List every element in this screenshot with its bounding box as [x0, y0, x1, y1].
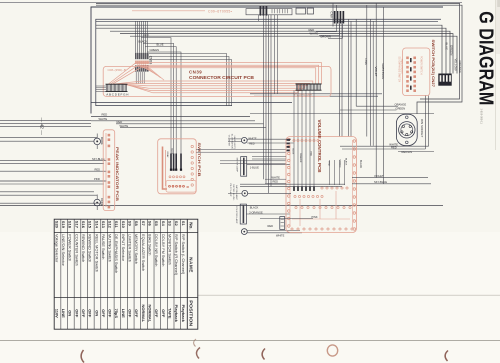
wires inside volume pcb vertical	[329, 160, 331, 185]
svg-text:S7: S7	[141, 221, 146, 227]
jack J3 (circle)	[241, 229, 247, 235]
wire bundle down (pair A)	[339, 19, 341, 136]
svg-text:INPUT Selector: INPUT Selector	[121, 234, 126, 262]
wires CN8 down with labels	[336, 24, 338, 32]
svg-text:2-ORANGE: 2-ORANGE	[249, 211, 263, 215]
wires pcb(2/2) down	[428, 96, 430, 147]
svg-text:DOLBY NR Switch: DOLBY NR Switch	[154, 234, 159, 266]
svg-text:S16: S16	[81, 221, 86, 229]
svg-text:REWIND Switch: REWIND Switch	[88, 234, 93, 262]
inner border second line	[96, 20, 438, 22]
svg-text:REWIND Switch: REWIND Switch	[81, 234, 86, 262]
svg-text:WHITE: WHITE	[120, 124, 129, 128]
wires exiting left to peak indicator pcb	[0, 137, 97, 139]
svg-text:PINK: PINK	[312, 215, 318, 219]
svg-text:RED: RED	[102, 113, 108, 117]
svg-text:S1: S1	[181, 221, 186, 227]
svg-text:METER ILLUMI-: METER ILLUMI-	[232, 185, 234, 201]
svg-text:REEL MOTOR Switch: REEL MOTOR Switch	[94, 234, 99, 272]
top border rule	[0, 2, 462, 4]
svg-text:LINE/DIN Selector: LINE/DIN Selector	[61, 234, 66, 266]
wire bundle down (pair B)	[348, 19, 350, 136]
svg-text:NORMAL: NORMAL	[148, 305, 153, 323]
wires exiting page left (top group)	[0, 119, 91, 121]
svg-text:RED: RED	[391, 146, 397, 150]
peak indicator pads	[108, 134, 111, 137]
wires right side going to DIN socket	[420, 30, 460, 99]
svg-text:ORANGE: ORANGE	[395, 102, 407, 106]
svg-text:Voltage Selector: Voltage Selector	[54, 234, 59, 263]
svg-text:▮▮: ▮▮	[187, 185, 189, 188]
wires across to DIN area	[252, 156, 286, 158]
wire down mid	[366, 5, 368, 136]
wire VIOLET down	[375, 3, 377, 177]
svg-text:COUNTER LAMP: COUNTER LAMP	[235, 206, 238, 224]
wires RED/WHITE under border corner	[91, 116, 250, 118]
volume pcb pads middle row	[294, 195, 296, 197]
svg-text:WHITE: WHITE	[272, 175, 281, 179]
bottom border rule	[0, 339, 500, 341]
table: switch position table frame	[54, 219, 198, 329]
svg-text:WHITE: WHITE	[99, 117, 108, 121]
diode D2	[94, 199, 101, 206]
svg-text:RED: RED	[268, 224, 274, 228]
wire down from top box B	[277, 15, 279, 94]
table row S15: REWIND Switch = OFF	[93, 219, 95, 329]
svg-text:ILLUMINATION: ILLUMINATION	[230, 134, 233, 150]
DIN socket	[396, 114, 417, 145]
small connector bottom-left of volume pcb	[280, 217, 285, 230]
svg-text:PINK: PINK	[327, 161, 329, 167]
svg-text:DE-EMPHASIS SWITCH: DE-EMPHASIS SWITCH	[398, 57, 401, 83]
svg-text:WHITE: WHITE	[248, 137, 257, 141]
border segment right-bottom 2	[254, 95, 378, 97]
svg-text:RED: RED	[273, 180, 279, 184]
connector CN38 pin row (upper)	[135, 53, 136, 59]
wire jack J2 to volume pcb	[248, 192, 291, 194]
svg-text:VIOLET: VIOLET	[374, 174, 384, 178]
svg-text:RED: RED	[95, 167, 101, 171]
wire RED to DIN	[342, 148, 425, 150]
diode D1	[94, 138, 101, 145]
svg-text:EQUALAIZER Switch: EQUALAIZER Switch	[141, 234, 146, 271]
wire PINK bottom	[260, 218, 313, 220]
svg-text:OFF: OFF	[154, 309, 159, 318]
connector CN8	[334, 11, 336, 24]
svg-text:BLACK: BLACK	[139, 39, 148, 43]
svg-text:CN39: CN39	[189, 69, 202, 74]
svg-text:GRAY: GRAY	[166, 152, 169, 159]
svg-text:S20: S20	[54, 221, 59, 229]
svg-text:Playback: Playback	[181, 305, 186, 323]
wire CN8 up-2	[336, 5, 338, 26]
connector CN38 pin row (lower)	[135, 65, 136, 71]
DIN socket mounting hole top	[406, 116, 409, 119]
svg-text:PINK: PINK	[364, 59, 368, 66]
svg-text:OFF: OFF	[134, 309, 139, 318]
svg-text:VIOLET: VIOLET	[374, 67, 378, 77]
wires CN38 to switch-pcb bundle, with color labels	[141, 38, 171, 155]
pcb switch pcb(2/2) outline	[403, 48, 430, 96]
svg-text:TAPE: TAPE	[167, 308, 172, 319]
svg-text:BIAS Switch: BIAS Switch	[148, 234, 153, 255]
svg-text:S4: S4	[161, 221, 166, 227]
table row S18: POWER Switch = ON	[73, 219, 75, 329]
svg-text:BLUE: BLUE	[444, 43, 448, 51]
wires into CN38 from top	[135, 21, 137, 53]
table row S11: DE-EMPHASIS Switch = 75&#181;S	[120, 219, 122, 329]
switch pcb inner traces	[163, 147, 168, 190]
svg-text:S8: S8	[134, 221, 139, 227]
table row S14: REEL MOTOR Switch = ON	[100, 219, 102, 329]
table rule No/NAME	[54, 232, 198, 234]
svg-text:DE-EMPHASIS Switch: DE-EMPHASIS Switch	[114, 234, 119, 273]
svg-text:S15: S15	[88, 221, 93, 229]
svg-text:GREEN: GREEN	[396, 106, 406, 110]
main unit outline (outer border)	[91, 7, 443, 114]
volume pcb pads top row	[293, 139, 295, 141]
svg-text:75µS–ON OFF: 75µS–ON OFF	[400, 59, 402, 75]
svg-text:OFF: OFF	[81, 309, 86, 318]
svg-text:S2: S2	[174, 221, 179, 227]
volume pcb pads lower-mid row	[295, 206, 297, 208]
component box top-2	[296, 8, 306, 14]
switch pcb switch bars (wire ends)	[170, 154, 172, 170]
wires mid-band crossings	[196, 149, 286, 151]
connector small (top, 3-pin)	[260, 6, 262, 16]
svg-text:RED: RED	[309, 28, 315, 32]
page edge line	[495, 0, 497, 150]
svg-text:C09–6T0955•: C09–6T0955•	[208, 10, 233, 14]
svg-text:ON: ON	[68, 310, 73, 316]
wire down from top box A	[274, 15, 276, 94]
fold line	[198, 294, 500, 296]
wires CN38 right with corner down	[149, 54, 227, 106]
connector comb right	[296, 83, 322, 85]
svg-text:C08–(35D)–B: C08–(35D)–B	[108, 68, 126, 72]
volume pcb left edge solder marks	[287, 139, 290, 141]
svg-text:3-859-088-11: 3-859-088-11	[479, 109, 483, 125]
volume pcb pads right column	[353, 140, 356, 143]
switch pcb lower sub board	[166, 180, 196, 192]
table row S9: LIMITER Switch = OFF	[133, 219, 135, 329]
pcb switch pcb outline	[158, 139, 197, 194]
svg-text:MONITOR Switch: MONITOR Switch	[167, 234, 172, 265]
jack J1 (circle)	[241, 137, 247, 143]
svg-text:NATION LAMP: NATION LAMP	[235, 185, 238, 200]
page curl mark 5	[445, 351, 448, 362]
svg-text:BLACK: BLACK	[359, 160, 362, 169]
volume pcb inner salmon traces	[289, 143, 291, 226]
volume pcb pads row 2	[321, 187, 323, 189]
svg-text:OFF: OFF	[88, 309, 93, 318]
table row S5: DOLBY NR Switch = OFF	[160, 219, 162, 329]
svg-text:S19: S19	[61, 221, 66, 229]
svg-text:S10: S10	[121, 221, 126, 229]
svg-text:S12: S12	[108, 221, 113, 229]
table row S2: R/P Switch (R Channel) = Playback	[180, 219, 182, 329]
wires comb right down to volume pcb	[293, 90, 295, 186]
svg-text:WHITE: WHITE	[276, 233, 285, 237]
page curl mark small	[194, 339, 196, 347]
svg-text:PEAK INDICATOR PCB: PEAK INDICATOR PCB	[115, 147, 119, 201]
lamp L1 (bar symbol)	[241, 157, 247, 177]
svg-text:G DIAGRAM: G DIAGRAM	[474, 11, 496, 105]
table row S8: MEMORY Switch = OFF	[140, 219, 142, 329]
svg-text:METER LAMP: METER LAMP	[236, 158, 239, 173]
wire jack J1 to volume pcb	[247, 138, 291, 140]
wire bundle inside top border	[96, 25, 442, 73]
pcb peak indicator outline	[103, 130, 115, 211]
table row S3: MONITOR Switch = TAPE	[173, 219, 175, 329]
table row S12: MUTING Switch = OFF	[113, 219, 115, 329]
svg-text:BLUE: BLUE	[157, 43, 164, 47]
svg-text:BLUE: BLUE	[170, 149, 172, 155]
outer border bottom	[91, 101, 292, 103]
svg-text:ORANGE: ORANGE	[299, 153, 302, 163]
svg-text:1-BLUE: 1-BLUE	[250, 165, 259, 169]
svg-text:ON: ON	[94, 310, 99, 316]
svg-text:S3: S3	[167, 221, 172, 227]
svg-text:OFF: OFF	[101, 309, 106, 318]
svg-text:No.: No.	[188, 222, 193, 229]
svg-text:VOLUME CONTROL PCB: VOLUME CONTROL PCB	[317, 120, 322, 173]
svg-text:PAUSE Switch: PAUSE Switch	[101, 234, 106, 259]
page curl mark 4 (ring)	[327, 345, 337, 356]
main unit outline (inner border)	[96, 19, 441, 105]
svg-text:DIODE: DIODE	[100, 198, 103, 206]
wire WHITE to DIN	[340, 145, 429, 147]
svg-text:S17: S17	[74, 221, 79, 229]
peak indicator inner trace	[105, 133, 107, 207]
wires CN38 down to bus	[135, 72, 137, 84]
salmon bus traces with end fans	[109, 63, 322, 84]
svg-text:BLACK: BLACK	[345, 158, 348, 166]
svg-text:RED: RED	[309, 152, 311, 157]
svg-text:MUTING Switch: MUTING Switch	[108, 234, 113, 262]
svg-text:DOLBY FM Switch: DOLBY FM Switch	[161, 234, 166, 266]
svg-text:POWER SWITCH: POWER SWITCH	[420, 56, 422, 75]
border segment right-bottom	[250, 93, 382, 95]
svg-text:SWITCH PCB(2/2) CN27: SWITCH PCB(2/2) CN27	[431, 40, 435, 88]
svg-text:S13: S13	[101, 221, 106, 229]
jack J2 (circle)	[242, 190, 248, 196]
table row S10: INPUT Selector = LINE	[126, 219, 128, 329]
svg-text:LAMP (LEFT): LAMP (LEFT)	[233, 136, 236, 150]
svg-text:DIODE: DIODE	[100, 137, 103, 145]
connector CN38 pads (salmon)	[135, 61, 137, 64]
svg-text:LINE: LINE	[121, 309, 126, 318]
svg-text:4–216FE308A: 4–216FE308A	[294, 93, 313, 97]
table row S6: BIAS Switch = NORMAL	[153, 219, 155, 329]
svg-text:DIN SOCKET: DIN SOCKET	[420, 119, 424, 138]
wire bundle down to volume pcb (4)	[263, 15, 265, 180]
wires comb to left border	[96, 85, 106, 87]
svg-text:RED: RED	[144, 34, 150, 38]
svg-text:COUNTER Switch: COUNTER Switch	[74, 234, 79, 266]
volume pcb solder joints	[293, 186, 295, 191]
table rule NAME/POSITION	[54, 297, 198, 299]
wire PINK down	[355, 19, 357, 106]
svg-text:POSITION: POSITION	[187, 300, 193, 327]
svg-text:REC/LIN: REC/LIN	[402, 150, 413, 154]
table row S4: DOLBY FM Switch = OFF	[166, 219, 168, 329]
svg-text:POWER Switch: POWER Switch	[68, 234, 73, 261]
svg-text:YELLOW: YELLOW	[453, 59, 457, 71]
svg-text:S6: S6	[148, 221, 153, 227]
table row S7: EQUALAIZER Switch = NORMAL	[146, 219, 148, 329]
svg-text:R/P Switch (L Channel): R/P Switch (L Channel)	[181, 234, 186, 275]
svg-text:PILOT LAMP: PILOT LAMP	[229, 184, 232, 197]
svg-text:GREEN: GREEN	[150, 48, 160, 52]
svg-text:GREEN: GREEN	[450, 45, 454, 55]
svg-text:ORANGE: ORANGE	[458, 61, 462, 74]
connector CN27 header (black 4-pin)	[438, 74, 451, 86]
svg-text:MEMORY Switch: MEMORY Switch	[134, 234, 139, 264]
svg-text:Playback: Playback	[174, 305, 179, 323]
svg-text:OFF: OFF	[128, 309, 133, 318]
table row S13: PAUSE Switch = OFF	[106, 219, 108, 329]
svg-text:SKY-BLUE: SKY-BLUE	[374, 180, 387, 184]
wire pair down right	[369, 19, 371, 146]
volume pcb pads bottom row	[291, 228, 293, 230]
page curl mark 3	[262, 349, 265, 360]
wire GRAY-BLUE down	[383, 7, 385, 184]
pcb CN39 connector circuit board outline	[103, 66, 331, 96]
wire CN8 up-1	[332, 3, 334, 26]
svg-text:BLUE: BLUE	[292, 149, 294, 155]
lamp L2 (bar symbol)	[240, 204, 246, 224]
salmon trace top	[132, 10, 205, 12]
table row S17: COUNTER Switch = OFF	[80, 219, 82, 329]
svg-text:110V: 110V	[54, 309, 59, 318]
wire long crossing y=113.5	[250, 113, 434, 115]
pcb volume control outline	[286, 137, 357, 233]
svg-text:VU METER: VU METER	[228, 135, 230, 147]
svg-text:ABCDEFGH: ABCDEFGH	[106, 92, 129, 96]
svg-text:LINE: LINE	[61, 309, 66, 318]
svg-text:S5: S5	[154, 221, 159, 227]
svg-text:LIMITER Switch: LIMITER Switch	[128, 234, 133, 262]
table row S16: REWIND Switch = OFF	[86, 219, 88, 329]
svg-text:SWITCH PCB: SWITCH PCB	[197, 143, 202, 177]
wire below DIN	[398, 151, 434, 153]
svg-text:NORMAL: NORMAL	[141, 305, 146, 323]
svg-text:BLACK: BLACK	[250, 206, 259, 210]
page curl mark 1	[81, 350, 84, 363]
page right edge shading	[496, 0, 500, 54]
svg-text:RED: RED	[117, 120, 123, 124]
svg-text:S9: S9	[128, 221, 133, 227]
wire VIOLET right of volume pcb	[352, 177, 428, 179]
component box top-3	[307, 8, 313, 14]
DIN socket mounting hole bottom	[406, 141, 409, 144]
wires into DIN socket	[356, 105, 398, 107]
svg-text:S14: S14	[94, 221, 99, 229]
svg-text:75µS: 75µS	[114, 309, 119, 319]
volume pcb pads left column	[288, 138, 291, 141]
wire SKY-BLUE right of volume pcb	[352, 183, 431, 185]
svg-text:PINK: PINK	[94, 177, 100, 181]
svg-text:S18: S18	[68, 221, 73, 229]
svg-text:NAME: NAME	[187, 257, 193, 273]
svg-text:CONNECTOR CIRCUIT PCB: CONNECTOR CIRCUIT PCB	[189, 75, 254, 80]
wires across volume pcb	[240, 183, 345, 185]
svg-text:WHITE: WHITE	[310, 32, 319, 36]
page curl mark 2	[196, 348, 200, 359]
wire stub from top box	[258, 15, 260, 22]
svg-text:OFF: OFF	[108, 309, 113, 318]
svg-text:R/P Switch (R Channel): R/P Switch (R Channel)	[174, 234, 179, 276]
svg-text:CN38: CN38	[148, 56, 152, 65]
svg-text:GRAY-BLUE: GRAY-BLUE	[381, 64, 385, 80]
svg-text:OFF: OFF	[74, 309, 79, 318]
table header separator	[186, 219, 188, 329]
salmon traces to CN38 pads	[137, 65, 150, 71]
table row S19: LINE/DIN Selector = LINE	[67, 219, 69, 329]
svg-text:OFF: OFF	[161, 309, 166, 318]
switch pcb pads	[191, 145, 193, 147]
svg-text:S11: S11	[114, 221, 119, 229]
wire bundle along page top	[96, 3, 460, 30]
pcb(2/2) pads	[406, 57, 409, 60]
table row S20: Voltage Selector = 110V	[60, 219, 62, 329]
wire long horizontal net	[0, 205, 443, 207]
svg-text:BROWN: BROWN	[321, 35, 331, 39]
connector comb ABCDEFGH	[106, 83, 128, 85]
component box top-1	[246, 9, 292, 15]
